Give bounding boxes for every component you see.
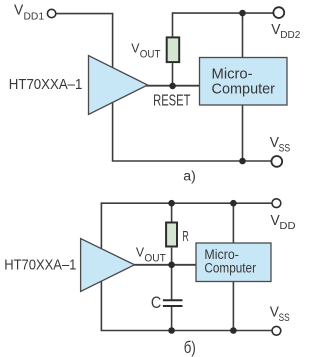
terminal VDD2	[273, 7, 284, 18]
svg-text:DD1: DD1	[24, 12, 45, 23]
wire VDD1 to corner	[56, 13, 112, 15]
wire bottom rail b	[101, 330, 272, 332]
node top-rail resistor dot b	[168, 200, 175, 207]
wire resistor R bottom lead to VOUT node	[171, 248, 173, 265]
wire capacitor C top lead	[171, 265, 173, 300]
wire top rail a	[173, 12, 274, 14]
svg-text:DD2: DD2	[280, 30, 300, 41]
node top-rail junction dot a	[239, 10, 246, 17]
node bottom-rail capacitor dot b	[168, 327, 175, 334]
terminal VSS b	[272, 326, 281, 335]
svg-text:OUT: OUT	[144, 253, 166, 265]
terminal VDD1	[47, 9, 55, 17]
svg-text:б): б)	[184, 338, 196, 357]
microcomputer block a	[200, 58, 288, 106]
wire resistor R top lead	[171, 203, 173, 221]
svg-text:SS: SS	[279, 312, 290, 324]
svg-text:Micro-: Micro-	[212, 67, 253, 83]
wire capacitor C bottom lead	[171, 306, 173, 331]
node bottom-rail junction dot a	[239, 158, 246, 165]
svg-text:Computer: Computer	[204, 261, 256, 276]
node bottom-rail microcomputer dot b	[230, 327, 237, 334]
svg-text:DD: DD	[279, 221, 295, 232]
wire RESET output: detector tip to microcomputer	[146, 85, 200, 87]
voltage detector U2 HT70XXA-1 (triangle)	[81, 239, 135, 292]
terminal VSS a	[271, 156, 282, 167]
svg-text:V: V	[136, 245, 144, 260]
svg-text:Micro-: Micro-	[204, 247, 239, 262]
svg-text:C: C	[151, 293, 161, 312]
resistor (pull-up, circuit a)	[167, 37, 180, 62]
svg-text:RESET: RESET	[153, 93, 191, 110]
wire VDD2 branch down to microcomputer top	[242, 13, 244, 57]
svg-text:R: R	[182, 229, 188, 245]
wire left vertical rail a	[112, 13, 114, 161]
wire microcomputer b top lead	[232, 203, 234, 243]
wire resistor bottom lead to RESET node	[172, 63, 174, 86]
wire resistor top lead	[172, 12, 174, 36]
svg-text:HT70XXA–1: HT70XXA–1	[4, 256, 76, 273]
capacitor C plates	[163, 299, 183, 301]
wire microcomputer b bottom lead	[232, 282, 234, 331]
svg-text:V: V	[131, 41, 139, 56]
wire VOUT: detector tip to microcomputer b	[133, 264, 196, 266]
wire bottom rail a	[112, 160, 271, 162]
wire left vertical rail b	[100, 202, 102, 330]
node VOUT junction dot	[168, 262, 175, 269]
node top-rail microcomputer dot b	[230, 200, 237, 207]
svg-text:HT70XXA–1: HT70XXA–1	[9, 76, 83, 93]
node RESET junction dot	[169, 83, 176, 90]
voltage detector U1 HT70XXA-1 (triangle)	[89, 56, 148, 115]
resistor R	[166, 223, 177, 247]
svg-text:OUT: OUT	[140, 49, 161, 61]
microcomputer block b	[196, 243, 271, 282]
svg-text:SS: SS	[279, 143, 291, 155]
terminal VDD b	[272, 199, 281, 208]
wire top rail b	[101, 202, 271, 204]
svg-text:Computer: Computer	[212, 81, 276, 97]
svg-text:a): a)	[183, 168, 196, 184]
wire microcomputer bottom to VSS rail	[242, 105, 244, 161]
